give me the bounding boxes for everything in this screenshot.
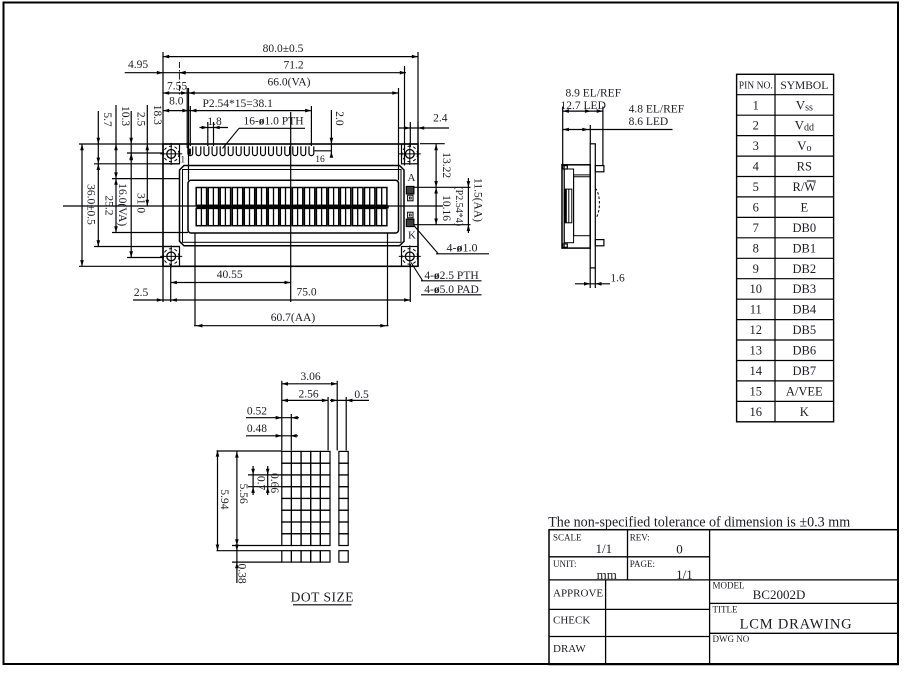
svg-text:80.0±0.5: 80.0±0.5 [263,43,304,55]
svg-text:REV:: REV: [630,533,650,543]
svg-text:4-ø1.0: 4-ø1.0 [447,241,478,255]
svg-text:CHECK: CHECK [553,615,590,627]
svg-text:36.0±0.5: 36.0±0.5 [85,184,97,225]
svg-text:66.0(VA): 66.0(VA) [268,76,311,88]
svg-text:DB6: DB6 [792,344,816,358]
svg-text:PIN NO.: PIN NO. [739,81,773,92]
svg-text:3.06: 3.06 [300,371,320,383]
svg-text:2: 2 [753,119,759,133]
svg-text:3: 3 [753,139,759,153]
svg-text:A/VEE: A/VEE [786,384,823,398]
svg-text:6: 6 [753,201,759,215]
svg-text:9: 9 [753,262,759,276]
svg-text:75.0: 75.0 [296,287,316,299]
svg-text:4: 4 [753,160,760,174]
svg-text:K: K [408,230,416,242]
svg-text:1: 1 [180,156,185,166]
svg-text:0.48: 0.48 [247,423,267,435]
svg-text:31.0: 31.0 [135,193,147,213]
svg-text:R/W: R/W [792,180,816,194]
svg-text:11.5(AA): 11.5(AA) [472,178,484,222]
svg-text:18.3: 18.3 [151,105,163,125]
svg-text:71.2: 71.2 [283,60,303,72]
svg-text:DWG NO: DWG NO [713,634,750,644]
svg-text:1/1: 1/1 [676,567,693,582]
svg-text:12: 12 [750,323,763,337]
svg-text:5.56: 5.56 [237,484,249,504]
svg-text:A: A [408,172,416,184]
svg-text:13.22: 13.22 [440,152,452,178]
svg-text:K: K [800,405,809,419]
svg-text:DB4: DB4 [792,303,816,317]
svg-text:2.5: 2.5 [134,287,149,299]
svg-text:11: 11 [750,303,762,317]
svg-text:4.8 EL/REF: 4.8 EL/REF [629,103,685,115]
svg-text:13: 13 [750,344,763,358]
svg-text:8.9 EL/REF: 8.9 EL/REF [566,87,622,99]
svg-text:4.95: 4.95 [128,59,148,71]
svg-text:10.16: 10.16 [440,195,452,221]
svg-text:DB1: DB1 [792,241,816,255]
svg-text:16: 16 [750,405,763,419]
svg-text:5: 5 [753,180,759,194]
svg-text:14: 14 [750,364,763,378]
svg-text:16-ø1.0 PTH: 16-ø1.0 PTH [243,116,303,128]
svg-text:7: 7 [753,221,759,235]
svg-text:0.38: 0.38 [236,563,248,583]
svg-text:MODEL: MODEL [713,581,745,591]
svg-text:DOT SIZE: DOT SIZE [291,590,354,605]
svg-text:2.4: 2.4 [433,113,448,125]
svg-text:60.7(AA): 60.7(AA) [271,312,316,324]
svg-text:4-ø2.5 PTH: 4-ø2.5 PTH [424,270,478,282]
svg-text:5.7: 5.7 [101,112,113,127]
svg-text:10.3: 10.3 [119,106,131,126]
svg-text:DB7: DB7 [792,364,816,378]
svg-text:1.6: 1.6 [610,273,625,285]
svg-text:The non-specified tolerance of: The non-specified tolerance of dimension… [548,515,851,531]
svg-text:40.55: 40.55 [217,269,243,281]
svg-text:DB2: DB2 [792,262,816,276]
svg-text:8: 8 [753,241,759,255]
svg-text:0.7: 0.7 [255,476,267,491]
svg-text:DB0: DB0 [792,221,816,235]
svg-text:2.0: 2.0 [333,111,345,126]
svg-text:15: 15 [750,384,763,398]
svg-text:P2.54*15=38.1: P2.54*15=38.1 [203,98,274,110]
svg-text:2.5: 2.5 [135,112,147,127]
svg-text:DB3: DB3 [792,282,816,296]
svg-text:1.8: 1.8 [207,116,222,128]
svg-text:0.52: 0.52 [247,406,267,418]
svg-text:7.55: 7.55 [167,81,187,93]
svg-text:(P2.54*4): (P2.54*4) [453,186,464,226]
svg-text:2.56: 2.56 [298,388,318,400]
svg-text:E: E [800,201,808,215]
svg-text:5.94: 5.94 [218,489,230,509]
svg-text:SCALE: SCALE [553,533,582,543]
svg-text:UNIT:: UNIT: [553,559,577,569]
svg-text:4-ø5.0 PAD: 4-ø5.0 PAD [424,284,479,296]
svg-text:LCM DRAWING: LCM DRAWING [740,616,853,632]
svg-text:DB5: DB5 [792,323,816,337]
svg-text:8.0: 8.0 [169,96,184,108]
svg-text:DRAW: DRAW [553,643,586,655]
svg-text:RS: RS [797,160,812,174]
svg-text:TITLE: TITLE [713,604,738,614]
svg-text:1: 1 [753,98,759,112]
svg-text:BC2002D: BC2002D [753,587,806,602]
svg-text:12.7 LED: 12.7 LED [561,100,606,112]
svg-text:APPROVE: APPROVE [553,587,603,599]
svg-text:1/1: 1/1 [595,541,612,556]
svg-text:16: 16 [315,155,325,165]
svg-text:mm: mm [597,567,617,582]
svg-text:PAGE:: PAGE: [630,559,655,569]
svg-text:10: 10 [750,282,763,296]
svg-text:0.66: 0.66 [268,473,280,493]
svg-text:SYMBOL: SYMBOL [780,80,828,92]
svg-text:0.5: 0.5 [354,389,369,401]
svg-text:0: 0 [676,542,683,557]
svg-text:8.6 LED: 8.6 LED [629,116,669,128]
svg-text:16.0(VA): 16.0(VA) [116,183,128,226]
svg-text:25.2: 25.2 [103,195,115,215]
